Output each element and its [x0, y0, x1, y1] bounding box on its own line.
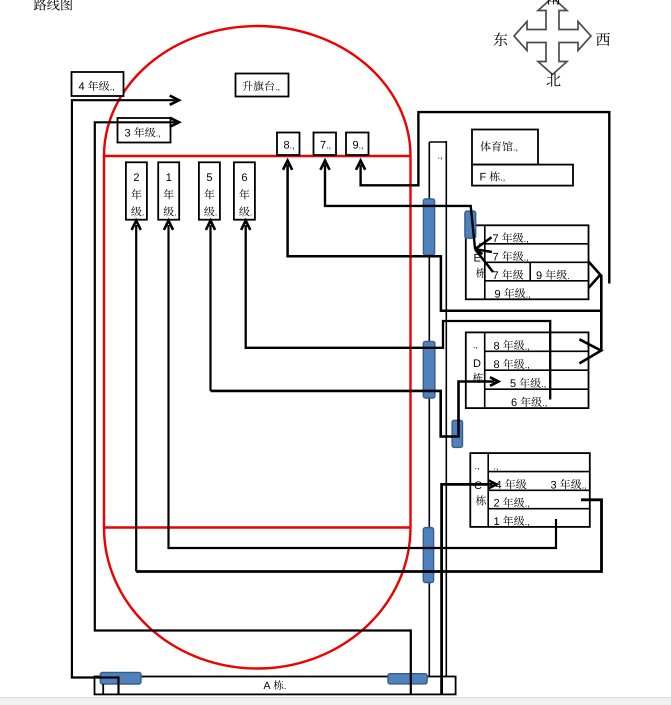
svg-text:7: 7 [493, 251, 499, 263]
svg-text:3: 3 [551, 479, 557, 491]
svg-text:.,: ., [110, 82, 115, 92]
svg-text:A: A [264, 680, 271, 692]
svg-text:.,: ., [513, 143, 518, 153]
svg-text:9: 9 [536, 270, 542, 282]
svg-text:.: . [215, 208, 218, 218]
svg-text:.,: ., [156, 129, 161, 139]
svg-text:D: D [473, 358, 481, 370]
svg-text:1: 1 [166, 172, 172, 184]
svg-text:.,: ., [500, 173, 505, 183]
svg-text:.: . [284, 681, 287, 691]
svg-text:9: 9 [495, 288, 501, 300]
svg-text:.: . [142, 208, 145, 218]
svg-text:.: . [250, 208, 253, 218]
svg-text:.,: ., [541, 379, 546, 389]
svg-text:.,: ., [438, 150, 443, 160]
svg-text:.,: ., [290, 141, 295, 151]
svg-text:1: 1 [494, 516, 500, 528]
svg-text:.,: ., [326, 141, 331, 151]
svg-text:C: C [474, 480, 482, 492]
svg-text:4: 4 [79, 81, 85, 93]
svg-text:2: 2 [133, 172, 139, 184]
svg-text:2: 2 [494, 498, 500, 510]
svg-text:8: 8 [494, 340, 500, 352]
svg-text:.,: ., [524, 252, 529, 262]
svg-text:.: . [567, 271, 570, 281]
svg-text:3: 3 [125, 128, 131, 140]
svg-text:.,: ., [525, 517, 530, 527]
svg-text:.,: ., [359, 141, 364, 151]
svg-text:8: 8 [494, 359, 500, 371]
svg-text:5: 5 [510, 378, 516, 390]
svg-text:.,: ., [525, 360, 530, 370]
svg-text:.,: ., [275, 82, 280, 92]
svg-text:.,: ., [494, 462, 499, 472]
svg-text:F: F [480, 172, 487, 184]
svg-text:6: 6 [511, 397, 517, 409]
svg-text:.,: ., [526, 289, 531, 299]
svg-text:.,: ., [475, 461, 480, 471]
svg-text:.,: ., [525, 341, 530, 351]
svg-text:.,: ., [525, 499, 530, 509]
svg-text:.,: ., [582, 480, 587, 490]
svg-text:.: . [174, 208, 177, 218]
svg-text:5: 5 [206, 172, 212, 184]
svg-text:7: 7 [493, 233, 499, 245]
svg-text:6: 6 [241, 172, 247, 184]
svg-text:.,: ., [524, 234, 529, 244]
svg-text:.,: ., [473, 340, 478, 350]
svg-text:.,: ., [542, 398, 547, 408]
